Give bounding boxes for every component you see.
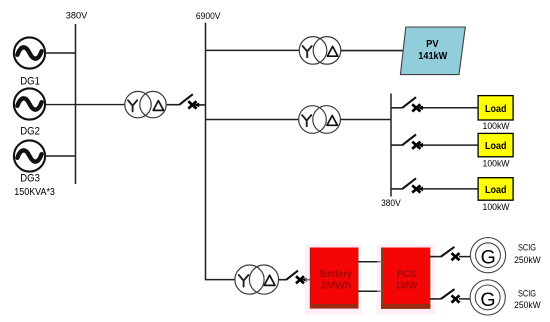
PCS pink halo [377, 245, 435, 315]
wire with arrow, breaker to Load 1 [418, 105, 479, 110]
svg-text:G: G [480, 289, 495, 311]
transformer T1 (380V/6900V) [125, 91, 166, 117]
label 380V (left bus) [66, 11, 88, 22]
wire 6900V bus to transformer T3 (load branch) [206, 119, 299, 121]
switch load 1 [391, 97, 416, 108]
wire DG1 to bus [45, 52, 75, 54]
svg-text:6900V: 6900V [196, 11, 221, 22]
label 6900V [196, 11, 221, 22]
generator DG3 [14, 140, 45, 184]
breaker X SCIG 1 [452, 253, 460, 260]
svg-text:2MWh: 2MWh [321, 280, 352, 292]
generator DG1 [14, 37, 45, 87]
wire battery to PCS (upper) [359, 261, 381, 263]
svg-text:Load: Load [485, 184, 507, 196]
label 150KVA*3 [14, 187, 55, 198]
svg-text:DG1: DG1 [20, 75, 40, 87]
generator DG2 [14, 88, 45, 137]
generator SCIG 2 [470, 280, 505, 315]
transformer T3 (load branch) [299, 106, 341, 134]
svg-text:Load: Load [485, 103, 507, 115]
label 380V (load bus) [381, 198, 401, 208]
wire with arrow, breaker to battery [301, 277, 310, 282]
svg-text:Bettery: Bettery [320, 268, 352, 280]
breaker X battery feed [296, 276, 304, 283]
breaker X load 2 [412, 142, 420, 149]
switch/disconnect battery feed [286, 271, 298, 280]
load 2 box [478, 133, 513, 156]
wire breaker to generator SCIG 2 [459, 298, 470, 300]
battery 2MWh box [310, 248, 359, 309]
wire T3 to load bus [340, 119, 391, 121]
label SCIG 250kW (1) [514, 243, 541, 266]
wire T2 to PV [341, 50, 404, 52]
wire battery to PCS (lower) [359, 290, 381, 292]
svg-text:141kW: 141kW [418, 50, 447, 62]
svg-text:SCIG: SCIG [518, 289, 536, 299]
svg-text:SCIG: SCIG [518, 243, 536, 253]
bus 6900V [206, 23, 236, 280]
breaker X SCIG 2 [452, 295, 460, 302]
svg-text:G: G [481, 246, 496, 268]
wire breaker to generator SCIG 1 [459, 256, 470, 258]
breaker X load 3 [412, 185, 420, 192]
breaker X main feed [188, 101, 196, 108]
battery pink halo [305, 245, 362, 315]
svg-text:380V: 380V [381, 198, 401, 208]
wire DG3 to bus [45, 155, 75, 157]
PCS 1MW box [381, 248, 430, 309]
svg-text:380V: 380V [66, 11, 88, 22]
switch load 3 [391, 178, 416, 189]
svg-text:100kW: 100kW [483, 158, 510, 168]
wire T4 to switch [279, 279, 287, 281]
svg-text:1MW: 1MW [395, 280, 417, 292]
switch/disconnect SCIG 1 [441, 247, 455, 257]
breaker X load 1 [412, 104, 420, 111]
wire 380V bus [75, 24, 77, 184]
label SCIG 250kW (2) [514, 289, 541, 311]
svg-text:250kW: 250kW [514, 300, 541, 310]
wire with arrow, breaker to Load 3 [418, 187, 479, 192]
svg-text:PV: PV [426, 38, 439, 50]
svg-text:250kW: 250kW [514, 255, 541, 265]
svg-text:DG3: DG3 [20, 172, 40, 184]
wire PCS to switch SCIG 1 [430, 256, 441, 258]
wire with arrow, breaker to Load 2 [418, 143, 479, 148]
PV block 141kW [400, 27, 465, 75]
generator SCIG 1 [470, 238, 505, 273]
switch/disconnect SCIG 2 [441, 289, 455, 299]
wire T1 to switch [167, 104, 180, 106]
wire with arrow, breaker to 6900V bus [194, 103, 206, 108]
wire 6900V bus to transformer T2 (top branch) [206, 49, 300, 51]
svg-text:150KVA*3: 150KVA*3 [14, 187, 55, 198]
switch load 2 [391, 135, 416, 146]
wire PCS to switch SCIG 2 [430, 298, 441, 300]
load 1 box [478, 96, 513, 120]
label 100kW load 1 [483, 121, 510, 131]
svg-text:100kW: 100kW [483, 121, 510, 131]
svg-text:Load: Load [485, 140, 507, 152]
wire DG2 to bus and to transformer T1 [45, 104, 125, 106]
label 100kW load 2 [483, 158, 510, 168]
transformer T4 (battery branch) [235, 265, 279, 294]
svg-text:PCS: PCS [397, 268, 416, 280]
switch/disconnect main feed [179, 94, 192, 105]
load 3 box [478, 178, 513, 201]
svg-text:100kW: 100kW [483, 202, 510, 212]
label 100kW load 3 [483, 202, 510, 212]
bus load 380V [390, 94, 392, 197]
transformer T2 (PV branch) [299, 37, 341, 65]
svg-text:DG2: DG2 [20, 126, 40, 138]
